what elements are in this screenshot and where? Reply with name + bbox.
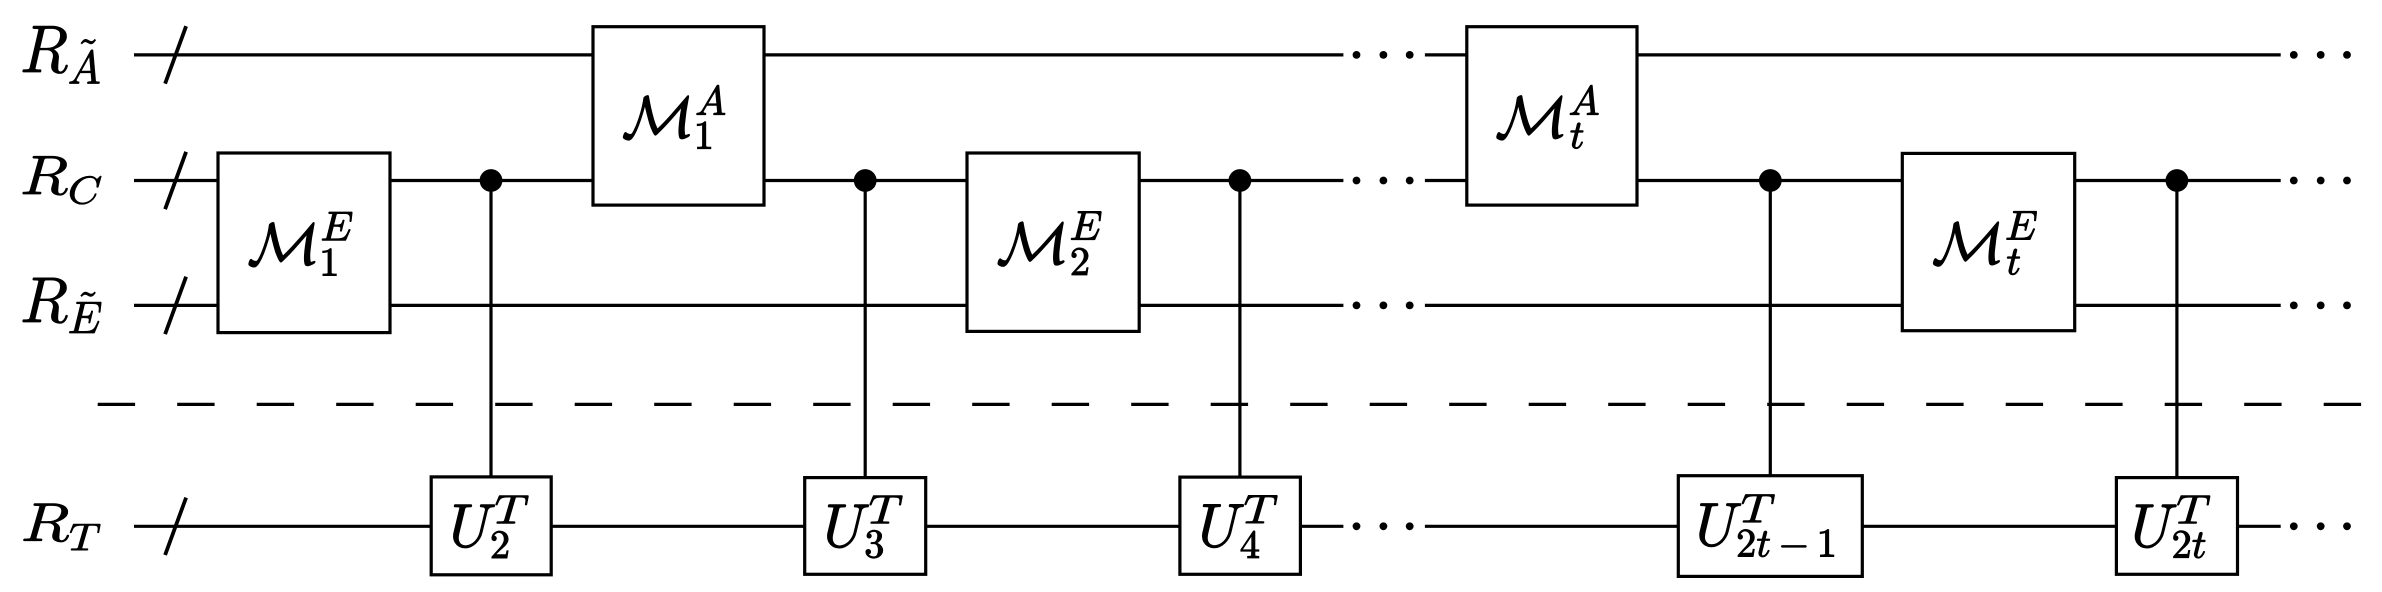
control wire to U2t-1 [1769,181,1772,479]
control wire to U4 [1238,181,1241,481]
label M1^E [249,212,352,275]
gate box U3^T [805,478,926,575]
ellipsis dots middle R_C [1353,177,1414,185]
wire R_Etilde segment 2 [388,304,968,307]
gate box Mt^A [1467,27,1637,205]
wire R_Etilde segment 3 [1138,304,1344,307]
bundle slash on wire R_Etilde [165,277,186,334]
gate box U(2t-1)^T [1678,476,1862,577]
wire R_C segment 3 [762,179,968,182]
label U2^T [454,496,529,558]
label U3^T [828,496,903,558]
ellipsis dots middle R_Etilde [1353,302,1414,310]
label Mt^A [1497,85,1599,148]
wire R_Etilde segment 5 [2073,304,2281,307]
label U(2t-1)^T [1700,495,1834,557]
label M2^E [998,211,1101,275]
control dot for U4 [1229,169,1252,192]
wire R_Atilde segment 4 [1635,53,2280,56]
label U4^T [1202,496,1277,558]
label R_Etilde [23,278,102,333]
gate box U(2t)^T [2116,478,2237,575]
wire R_T segment 2 [550,525,807,528]
gate box Mt^E [1902,153,2074,330]
bundle slash on wire R_T [165,498,186,555]
wire R_T segment 3 [924,525,1181,528]
bundle slash on wire R_Atilde [165,26,186,83]
wire R_C segment 4 [1138,179,1344,182]
dashed separator line between system and T registers [98,403,2363,406]
ellipsis dots middle R_T [1353,522,1414,530]
control dot for U2t [2166,169,2189,192]
wire R_C segment 6 [1635,179,1904,182]
control wire to U2 [489,181,492,481]
label Mt^E [1933,211,2036,274]
wire R_C segment 7 [2073,179,2281,182]
wire R_T segment 1 [134,525,433,528]
ellipsis dots right R_Etilde [2290,302,2351,310]
wire R_T segment 4 [1299,525,1344,528]
gate box M1^E [218,153,390,333]
control dot for U2t-1 [1759,169,1782,192]
gate box M2^E [967,153,1139,331]
label R_T [24,504,101,550]
control dot for U2 [480,169,503,192]
wire R_C segment 1 [134,179,220,182]
gate box U4^T [1180,477,1301,574]
wire R_Atilde segment 2 [762,53,1343,56]
label R_Atilde [23,26,100,83]
ellipsis dots right R_C [2290,177,2351,185]
wire R_T segment 7 [2236,525,2281,528]
label R_C [23,156,102,204]
wire R_Etilde segment 4 [1425,304,1904,307]
ellipsis dots middle R_Atilde [1353,51,1414,59]
control dot for U3 [854,169,877,192]
wire R_T segment 5 [1425,525,1680,528]
ellipsis dots right R_T [2290,522,2351,530]
bundle slash on wire R_C [165,152,186,209]
label M1^A [623,85,725,148]
gate box U2^T [431,477,551,575]
wire R_C segment 5 [1425,179,1469,182]
wire R_T segment 6 [1861,525,2118,528]
wire R_Atilde segment 1 [134,53,595,56]
wire R_C segment 2 [388,179,594,182]
wire R_Atilde segment 3 [1425,53,1469,56]
control wire to U3 [864,181,867,481]
gate box M1^A [593,27,764,205]
wire R_Etilde segment 1 [134,304,220,307]
control wire to U2t [2175,181,2178,481]
label U(2t)^T [2135,496,2210,558]
ellipsis dots right R_Atilde [2290,51,2351,59]
